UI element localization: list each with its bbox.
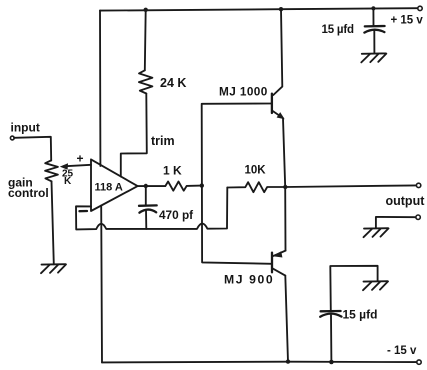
node -15 rail / 15ufd tap bbox=[329, 360, 334, 365]
label - input bbox=[80, 210, 88, 212]
svg-text:10K: 10K bbox=[245, 165, 267, 177]
svg-text:24 K: 24 K bbox=[160, 76, 186, 90]
label gain control bbox=[8, 176, 49, 201]
svg-text:trim: trim bbox=[151, 134, 175, 148]
svg-text:15 µfd: 15 µfd bbox=[343, 308, 378, 322]
wire noninverting input with wiper arrow bbox=[60, 163, 91, 169]
capacitor C2 470 pf bbox=[139, 184, 157, 229]
wire MJ900 collector to -15 rail bbox=[285, 276, 288, 362]
transistor Q1 MJ1000 bbox=[272, 9, 285, 119]
op-amp U1 118A bbox=[91, 159, 138, 211]
wire output return to ground bbox=[376, 217, 416, 228]
label 25 K (pot value) bbox=[62, 169, 74, 188]
wire output node vertical (emitters) bbox=[283, 119, 286, 251]
svg-text:118 A: 118 A bbox=[95, 182, 123, 194]
terminal input bbox=[10, 136, 14, 140]
wire V+ supply (top rail down to op-amp) bbox=[99, 11, 101, 166]
resistor 1K (op-amp output to bases) bbox=[138, 182, 204, 191]
wire V- supply (op-amp to -15 rail) bbox=[100, 206, 103, 363]
node top rail / MJ1000 collector tap bbox=[279, 7, 283, 11]
svg-text:output: output bbox=[386, 194, 426, 208]
terminal output bbox=[416, 183, 420, 187]
ground (top right, +15 bypass) bbox=[361, 53, 386, 62]
node top rail / 24K tap bbox=[144, 8, 148, 12]
svg-text:MJ 900: MJ 900 bbox=[224, 273, 274, 287]
node top rail / 15ufd tap bbox=[371, 6, 375, 10]
svg-text:15 µfd: 15 µfd bbox=[322, 24, 354, 36]
node -15 rail / MJ900 bbox=[286, 359, 290, 363]
wire trim (24K to op-amp offset pin) bbox=[121, 94, 147, 177]
svg-text:input: input bbox=[11, 121, 40, 135]
wire input to potentiometer bbox=[14, 137, 51, 161]
svg-text:K: K bbox=[64, 176, 72, 187]
wire pot bottom to ground bbox=[52, 181, 54, 264]
wire bases line (1K node up to MJ1000 base, down to MJ900 base) bbox=[202, 104, 272, 264]
svg-text:+ 15 v: + 15 v bbox=[391, 15, 424, 27]
svg-text:1 K: 1 K bbox=[163, 164, 182, 178]
svg-text:+: + bbox=[77, 152, 84, 166]
terminal -15 v bbox=[417, 360, 421, 364]
wire inverting input / feedback line with hops bbox=[76, 188, 227, 230]
wire top +15V rail bbox=[100, 8, 418, 10]
ground (15 ufd bottom) bbox=[363, 281, 388, 290]
svg-text:MJ 1000: MJ 1000 bbox=[219, 85, 268, 99]
svg-text:470 pf: 470 pf bbox=[159, 208, 193, 222]
wire output to terminal bbox=[285, 185, 416, 187]
svg-text:- 15 v: - 15 v bbox=[387, 345, 417, 357]
capacitor C1 15 ufd (top) bbox=[364, 8, 384, 52]
terminal output return bbox=[416, 215, 420, 219]
ground (output return) bbox=[364, 228, 389, 237]
capacitor C3 15 ufd (bottom) bbox=[320, 266, 377, 362]
ground (input / gain control) bbox=[41, 264, 66, 273]
svg-text:control: control bbox=[8, 186, 49, 200]
terminal +15 v bbox=[418, 6, 422, 10]
resistor 10K (feedback node to output) bbox=[227, 182, 287, 192]
wire bottom -15V rail bbox=[102, 361, 417, 364]
resistor 24K bbox=[139, 10, 153, 94]
potentiometer 25K bbox=[45, 160, 58, 181]
transistor Q2 MJ900 bbox=[272, 251, 286, 276]
